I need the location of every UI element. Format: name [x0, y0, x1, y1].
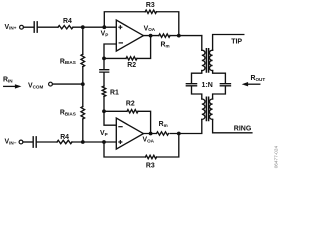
junction: top wire / bias bus	[81, 25, 85, 29]
svg-text:Rm: Rm	[161, 42, 170, 49]
resistor RBIAS (upper)	[81, 54, 85, 66]
capacitor C (middle chain)	[100, 70, 109, 72]
middle chain: wire from top node to cap	[103, 58, 105, 69]
wire: cap to R4 (top)	[38, 26, 58, 28]
svg-text:RBIAS: RBIAS	[60, 58, 76, 65]
wire: VIN+ terminal to series cap	[24, 26, 34, 28]
wire: R1 to bottom node	[103, 97, 105, 112]
transformer T2 primary winding	[202, 99, 205, 119]
svg-text:VIN−: VIN−	[5, 139, 17, 146]
svg-text:Rm: Rm	[159, 121, 168, 128]
node VP (bottom)	[102, 140, 106, 144]
wire: VP riser + top rail to R3	[104, 12, 145, 27]
junction: R3 tap (bottom)	[177, 132, 181, 136]
resistor R4 (bottom)	[57, 140, 72, 143]
junction: U2 output node	[149, 132, 153, 136]
wire: VP riser + bottom rail to R3	[104, 142, 145, 157]
wire: U2 inverting input up to R2 node	[104, 111, 116, 125]
capacitor on left rail	[186, 84, 196, 86]
wire: R2 to output junction (bottom)	[138, 111, 151, 133]
resistor R3 (bottom)	[145, 155, 156, 158]
wire: T1 primary bottom to left rail	[192, 71, 202, 84]
resistor Rm (bottom)	[156, 130, 170, 138]
resistor R3 (top)	[145, 10, 156, 13]
svg-text:RBIAS: RBIAS	[60, 110, 76, 117]
wire: U1 inverting input down to R2 node	[104, 44, 116, 58]
wire: T1 secondary to TIP	[213, 35, 244, 51]
transformer T2 secondary winding	[209, 99, 212, 119]
wire: R2 to output junction (top)	[137, 36, 151, 59]
wire: cap to R1	[103, 73, 105, 86]
wire: node to R2 (top)	[104, 57, 126, 59]
wire: VIN- terminal to series cap	[23, 141, 33, 143]
wire: node to R2 (bottom)	[104, 110, 127, 112]
bias bus: lower RBIAS to bottom wire	[82, 119, 84, 142]
svg-text:R2: R2	[126, 101, 135, 108]
svg-text:TIP: TIP	[231, 39, 242, 46]
input terminal VIN-	[19, 140, 23, 144]
wire: left rail to T2 primary	[192, 86, 202, 99]
wire: cap to R4 (bottom)	[37, 141, 57, 143]
wire: T2 secondary to RING	[213, 119, 252, 132]
bias bus: top wire to upper RBIAS	[82, 27, 84, 54]
resistor RBIAS (lower)	[81, 107, 85, 119]
svg-text:R3: R3	[146, 162, 155, 169]
node: U2 feedback node	[102, 109, 106, 113]
wire: Rm to transformer primary (top)	[170, 35, 202, 37]
arrow RIN (points right)	[4, 85, 16, 87]
capacitor on right rail	[220, 84, 230, 86]
wire: right rail to T2 secondary	[213, 86, 226, 99]
svg-text:VOA: VOA	[144, 25, 156, 32]
svg-text:1:N: 1:N	[202, 82, 213, 89]
resistor Rm (top)	[159, 34, 170, 37]
svg-text:R4: R4	[63, 18, 72, 25]
transformer T1 primary winding	[202, 50, 205, 70]
wire: R3 to tap riser (bottom)	[157, 134, 179, 158]
junction: R3 tap (top)	[177, 34, 181, 38]
svg-text:R1: R1	[110, 89, 119, 96]
node: U1 feedback node	[102, 57, 106, 61]
svg-text:VP: VP	[101, 31, 109, 38]
transformer T1 secondary winding	[209, 50, 212, 70]
wire: U1 output	[143, 35, 158, 37]
svg-text:VOA: VOA	[143, 137, 155, 144]
wire: R3 to tap riser (top)	[157, 12, 179, 36]
wire: R4 to op-amp + input	[73, 26, 116, 28]
wire: VCOM to bias bus	[53, 83, 83, 85]
capacitor (bottom series)	[33, 137, 36, 147]
U2 - sign	[119, 126, 122, 128]
svg-text:VCOM: VCOM	[28, 83, 44, 90]
transformer T1 core	[206, 49, 208, 72]
svg-text:ROUT: ROUT	[251, 75, 266, 82]
wire: R4 to U2 + input	[72, 141, 116, 143]
resistor R2 (bottom)	[127, 110, 138, 113]
resistor R1	[102, 86, 106, 97]
svg-text:RIN: RIN	[3, 76, 13, 83]
svg-text:06477-024: 06477-024	[274, 145, 279, 168]
wire: T2 primary bottom to output line (bottom)	[143, 119, 201, 133]
U1 + sign	[119, 26, 122, 29]
U2 + sign	[119, 141, 122, 144]
resistor R4 (top)	[58, 26, 73, 29]
node VP (top)	[102, 25, 106, 29]
op-amp U1 (top)	[116, 20, 143, 51]
svg-text:VP: VP	[100, 130, 108, 137]
svg-text:R2: R2	[127, 62, 136, 69]
node VCOM junction	[81, 82, 85, 86]
terminal VCOM	[49, 82, 53, 86]
svg-text:R3: R3	[146, 2, 155, 9]
junction: bottom wire / bias bus	[81, 140, 85, 144]
bias bus: upper RBIAS to lower RBIAS	[82, 67, 84, 107]
wire: down to T1 primary	[201, 36, 203, 51]
resistor R2 (top)	[126, 57, 137, 60]
U1 - sign	[119, 42, 122, 44]
wire: T1 secondary bottom to right rail	[213, 71, 226, 84]
arrow ROUT (points left)	[248, 83, 260, 85]
transformer T2 core	[206, 97, 208, 120]
capacitor (top series)	[34, 22, 37, 32]
svg-text:VIN+: VIN+	[5, 24, 17, 31]
op-amp U2 (bottom)	[116, 118, 143, 149]
svg-text:RING: RING	[234, 126, 252, 133]
junction: U1 output node	[149, 34, 153, 38]
svg-text:R4: R4	[60, 134, 69, 141]
input terminal VIN+	[20, 25, 24, 29]
